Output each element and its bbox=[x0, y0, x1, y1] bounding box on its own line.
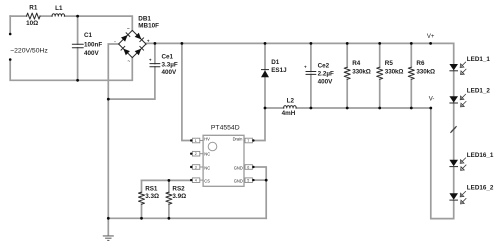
wire LED string segment 1 bbox=[453, 71, 455, 96]
pin terminal dot 6 bbox=[252, 166, 254, 168]
junction minus link bbox=[107, 98, 110, 101]
svg-text:2.2µF: 2.2µF bbox=[318, 71, 334, 78]
svg-text:+: + bbox=[304, 65, 307, 70]
junction RS1 bottom bbox=[140, 217, 143, 220]
svg-text:330kΩ: 330kΩ bbox=[352, 69, 371, 76]
svg-text:L1: L1 bbox=[55, 5, 63, 12]
resistor RS1 bbox=[139, 192, 145, 204]
svg-text:V-: V- bbox=[429, 97, 435, 103]
wire R4 branch bbox=[346, 43, 348, 108]
svg-text:LED16_2: LED16_2 bbox=[467, 185, 494, 192]
LED LED16_1 bbox=[449, 158, 466, 171]
wire top from source to R1 bbox=[10, 15, 26, 17]
pin terminal dot 4 bbox=[190, 179, 192, 181]
svg-text:C1: C1 bbox=[84, 32, 93, 39]
svg-text:3: 3 bbox=[195, 166, 197, 170]
svg-text:NC: NC bbox=[204, 152, 210, 157]
svg-text:GND: GND bbox=[234, 178, 243, 183]
wire GND pin 6 bbox=[253, 167, 266, 218]
wire R6 branch bbox=[410, 43, 412, 108]
svg-text:ES1J: ES1J bbox=[271, 67, 287, 74]
capacitor C1 bbox=[72, 44, 83, 48]
svg-text:3.3µF: 3.3µF bbox=[162, 62, 178, 69]
diode D1 bbox=[261, 70, 269, 78]
svg-text:7: 7 bbox=[247, 139, 249, 143]
svg-text:~: ~ bbox=[127, 26, 130, 31]
svg-text:5: 5 bbox=[247, 179, 249, 183]
wire Ce1 branch top bbox=[154, 43, 156, 63]
svg-text:LED1_2: LED1_2 bbox=[467, 88, 491, 95]
svg-text:10Ω: 10Ω bbox=[26, 20, 38, 27]
wire ground stub bbox=[107, 218, 109, 235]
svg-text:~: ~ bbox=[128, 59, 131, 64]
source terminal dot lower bbox=[9, 58, 12, 61]
svg-text:3.3Ω: 3.3Ω bbox=[145, 193, 159, 200]
svg-text:Drain: Drain bbox=[233, 136, 244, 141]
svg-text:R4: R4 bbox=[352, 60, 361, 67]
bridge diode top-left bbox=[121, 32, 130, 41]
wire switch rail to L2 bbox=[265, 107, 284, 109]
wire D1 anode to switch node and Drain bbox=[253, 77, 265, 140]
junction Ce2 top bbox=[310, 42, 313, 45]
junction R5 top bbox=[378, 42, 381, 45]
junction switch node bbox=[264, 107, 267, 110]
inductor L1 bbox=[52, 14, 65, 16]
wire GND pin 5 bbox=[253, 179, 266, 181]
resistor R6 bbox=[408, 67, 414, 79]
junction ground tap bbox=[107, 217, 110, 220]
junction GND pins bbox=[265, 179, 268, 182]
inductor L2 bbox=[284, 106, 297, 108]
svg-text:Ce1: Ce1 bbox=[162, 54, 174, 61]
wire L2 to Vminus rail corner bbox=[296, 107, 431, 109]
svg-text:V+: V+ bbox=[427, 34, 435, 40]
wire D1 branch top bbox=[264, 43, 266, 69]
wire CS net to pin 4 bbox=[142, 179, 191, 181]
junction RS2 bottom bbox=[168, 217, 171, 220]
bridge diode bottom-right bbox=[135, 46, 144, 55]
wire Ce2 branch bottom bbox=[310, 74, 312, 108]
svg-text:GND: GND bbox=[234, 165, 243, 170]
svg-text:L2: L2 bbox=[287, 97, 295, 104]
wire L1 to bridge top corner bbox=[65, 16, 133, 30]
pin terminal dot 3 bbox=[190, 166, 192, 168]
resistor RS2 bbox=[166, 192, 172, 204]
resistor R1 bbox=[27, 13, 41, 19]
wire R5 branch bbox=[379, 43, 381, 108]
svg-text:3.9Ω: 3.9Ω bbox=[172, 193, 186, 200]
wire bridge minus to ground bus bbox=[108, 44, 118, 218]
junction Ce1 top bbox=[154, 42, 157, 45]
IC pin box 3 bbox=[192, 165, 203, 170]
wire Vminus down to LED return bbox=[431, 108, 454, 219]
junction R5 bottom bbox=[378, 107, 381, 110]
IC pin box 6 bbox=[244, 165, 253, 170]
source terminal dot upper bbox=[9, 33, 12, 36]
junction RS2 top bbox=[168, 179, 171, 182]
pin terminal dot 5 bbox=[252, 179, 254, 181]
svg-text:100nF: 100nF bbox=[84, 42, 102, 49]
svg-text:R5: R5 bbox=[385, 60, 394, 67]
ground bbox=[103, 236, 114, 241]
wire HV branch bbox=[182, 43, 191, 140]
wire R1 to L1 bbox=[40, 15, 52, 17]
svg-text:NC: NC bbox=[204, 165, 210, 170]
svg-text:CS: CS bbox=[204, 178, 210, 183]
svg-text:6: 6 bbox=[247, 166, 249, 170]
svg-text:330kΩ: 330kΩ bbox=[416, 69, 435, 76]
svg-text:MB10F: MB10F bbox=[138, 23, 159, 30]
svg-text:HV: HV bbox=[204, 136, 210, 141]
junction R4 top bbox=[346, 42, 349, 45]
wire source left terminal lower bbox=[10, 58, 132, 81]
resistor R4 bbox=[344, 67, 350, 79]
svg-text:D1: D1 bbox=[271, 59, 280, 66]
IC pin1 circle bbox=[208, 142, 217, 151]
junction C1 top bbox=[76, 15, 79, 18]
wire LED string segment 2 bbox=[453, 103, 455, 160]
resistor R5 bbox=[377, 67, 383, 79]
wire C1 branch bbox=[77, 16, 79, 80]
junction C1 bottom bbox=[76, 79, 79, 82]
junction Vminus corner bbox=[429, 107, 432, 110]
junction HV top bbox=[181, 42, 184, 45]
capacitor Ce1 bbox=[150, 64, 160, 67]
svg-text:2: 2 bbox=[195, 152, 197, 156]
svg-text:PT4554D: PT4554D bbox=[211, 125, 240, 132]
junction R6 bottom bbox=[410, 107, 413, 110]
wire Ce2 branch top bbox=[310, 43, 312, 71]
wire Ce1 branch bottom to minus link bbox=[108, 67, 155, 99]
IC pin box 2 bbox=[192, 151, 203, 156]
svg-text:RS2: RS2 bbox=[172, 186, 185, 193]
wire LED string segment 3 bbox=[453, 168, 455, 194]
svg-text:R1: R1 bbox=[29, 5, 38, 12]
wire Vplus rail bbox=[146, 43, 454, 64]
svg-text:4: 4 bbox=[195, 179, 197, 183]
IC pin box 4 bbox=[192, 178, 203, 183]
bridge diode bottom-left bbox=[121, 46, 130, 55]
LED LED16_2 bbox=[449, 191, 466, 204]
wire source left terminal upper bbox=[9, 16, 11, 34]
svg-text:LED1_1: LED1_1 bbox=[467, 56, 491, 63]
bridge diode top-right bbox=[135, 33, 144, 42]
svg-text:R6: R6 bbox=[416, 60, 425, 67]
pin terminal dot 1 bbox=[190, 139, 192, 141]
svg-text:400V: 400V bbox=[318, 78, 334, 85]
junction Ce2 bottom bbox=[310, 107, 313, 110]
junction R6 top bbox=[410, 42, 413, 45]
bridge DB1 diamond bbox=[119, 30, 146, 57]
IC pin box 5 bbox=[244, 178, 253, 183]
svg-text:400V: 400V bbox=[84, 50, 100, 57]
svg-text:LED16_1: LED16_1 bbox=[467, 152, 494, 159]
svg-text:+: + bbox=[149, 58, 152, 63]
svg-text:DB1: DB1 bbox=[138, 16, 151, 23]
wire RS1 branch bbox=[141, 180, 143, 218]
junction Vplus tap bbox=[429, 42, 432, 45]
junction R4 bottom bbox=[346, 107, 349, 110]
svg-text:400V: 400V bbox=[162, 69, 178, 76]
junction D1 top bbox=[264, 42, 267, 45]
LED LED1_1 bbox=[449, 62, 466, 75]
svg-text:1: 1 bbox=[195, 139, 197, 143]
svg-text:~220V/50Hz: ~220V/50Hz bbox=[10, 47, 48, 54]
svg-text:RS1: RS1 bbox=[145, 186, 158, 193]
wire ground bus bbox=[108, 217, 266, 219]
wire break symbol bbox=[450, 126, 456, 133]
svg-text:4mH: 4mH bbox=[282, 110, 296, 117]
svg-text:Ce2: Ce2 bbox=[318, 62, 330, 69]
svg-text:330kΩ: 330kΩ bbox=[385, 69, 404, 76]
IC pin box 7 bbox=[244, 138, 253, 143]
IC pin box 1 bbox=[192, 138, 203, 143]
wire RS2 branch bbox=[168, 180, 170, 218]
svg-text:+: + bbox=[147, 38, 150, 43]
IC U1 PT4554D body bbox=[203, 135, 244, 186]
capacitor Ce2 bbox=[306, 72, 316, 75]
pin terminal dot 2 bbox=[190, 153, 192, 155]
LED LED1_2 bbox=[449, 94, 466, 107]
pin terminal dot 7 bbox=[252, 139, 254, 141]
